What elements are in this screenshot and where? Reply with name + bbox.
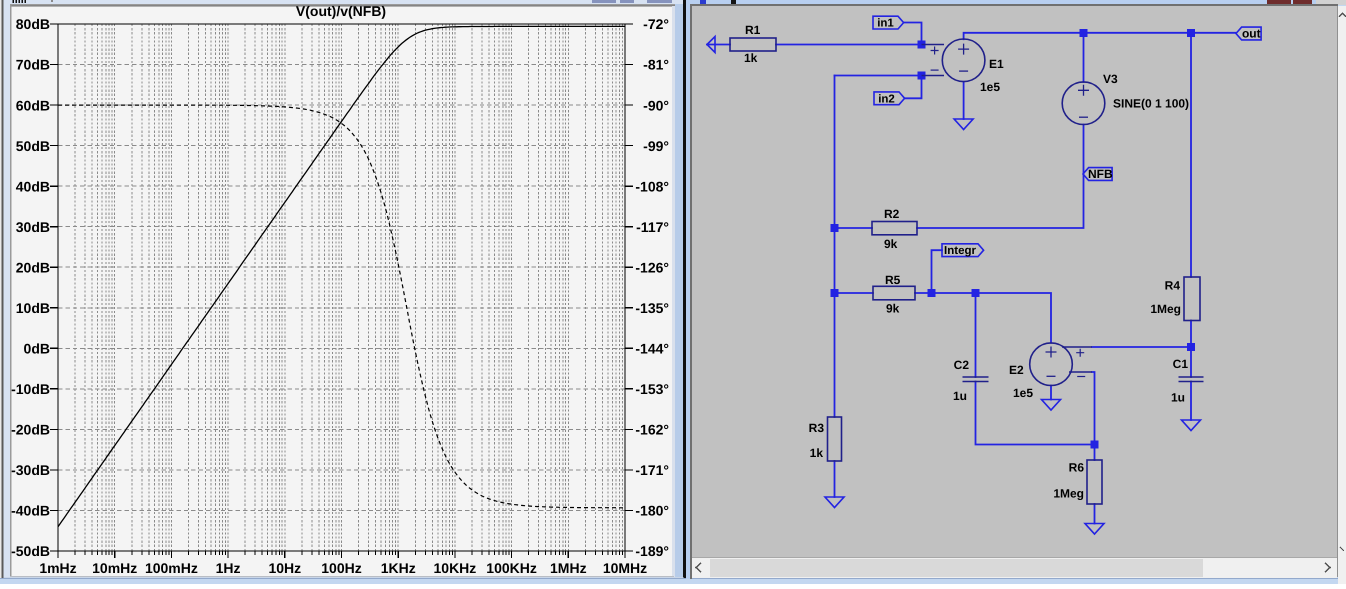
svg-text:20dB: 20dB: [16, 259, 50, 275]
svg-text:100KHz: 100KHz: [486, 560, 537, 576]
svg-text:V(out)/v(NFB): V(out)/v(NFB): [296, 3, 386, 19]
svg-text:SINE(0 1 100): SINE(0 1 100): [1113, 97, 1189, 111]
svg-text:1MHz: 1MHz: [550, 560, 587, 576]
svg-text:100Hz: 100Hz: [321, 560, 361, 576]
svg-text:1e5: 1e5: [980, 80, 1000, 94]
svg-text:1e5: 1e5: [1013, 386, 1033, 400]
svg-text:-10dB: -10dB: [11, 381, 50, 397]
svg-text:-126°: -126°: [635, 259, 669, 275]
svg-text:70dB: 70dB: [16, 57, 50, 73]
svg-text:1u: 1u: [953, 389, 967, 403]
svg-text:9k: 9k: [884, 237, 898, 251]
svg-text:out: out: [1242, 27, 1261, 41]
svg-text:R4: R4: [1165, 279, 1181, 293]
svg-text:-108°: -108°: [635, 178, 669, 194]
svg-text:10KHz: 10KHz: [434, 560, 477, 576]
svg-text:-90°: -90°: [643, 97, 669, 113]
svg-text:-40dB: -40dB: [11, 503, 50, 519]
svg-text:10dB: 10dB: [16, 300, 50, 316]
svg-text:-135°: -135°: [635, 300, 669, 316]
svg-text:1Meg: 1Meg: [1053, 487, 1084, 501]
svg-text:Integr: Integr: [944, 245, 976, 257]
svg-text:V3: V3: [1103, 72, 1118, 86]
svg-text:-99°: -99°: [643, 138, 669, 154]
svg-text:-117°: -117°: [636, 219, 669, 235]
svg-text:30dB: 30dB: [16, 219, 50, 235]
svg-text:R2: R2: [884, 207, 900, 221]
svg-text:in1: in1: [877, 18, 894, 30]
svg-text:R3: R3: [809, 421, 825, 435]
svg-text:10Hz: 10Hz: [268, 560, 301, 576]
svg-text:R5: R5: [885, 273, 901, 287]
svg-text:1KHz: 1KHz: [381, 560, 416, 576]
svg-text:-30dB: -30dB: [11, 462, 50, 478]
svg-text:E1: E1: [989, 57, 1004, 71]
svg-text:1Hz: 1Hz: [216, 560, 241, 576]
svg-text:C1: C1: [1173, 357, 1189, 371]
svg-text:-81°: -81°: [643, 57, 669, 73]
svg-text:-189°: -189°: [635, 543, 669, 559]
svg-text:NFB: NFB: [1088, 167, 1113, 181]
svg-text:100mHz: 100mHz: [145, 560, 198, 576]
svg-text:-72°: -72°: [643, 16, 669, 32]
svg-text:50dB: 50dB: [16, 138, 50, 154]
svg-text:E2: E2: [1009, 363, 1024, 377]
svg-text:1Meg: 1Meg: [1150, 302, 1181, 316]
svg-text:1k: 1k: [744, 51, 758, 65]
svg-text:1mHz: 1mHz: [39, 560, 76, 576]
svg-text:C2: C2: [954, 358, 970, 372]
svg-text:1k: 1k: [810, 446, 824, 460]
svg-text:10mHz: 10mHz: [92, 560, 137, 576]
svg-text:40dB: 40dB: [16, 178, 50, 194]
svg-text:-162°: -162°: [635, 422, 669, 438]
svg-text:80dB: 80dB: [16, 16, 50, 32]
svg-text:-153°: -153°: [635, 381, 669, 397]
svg-text:-50dB: -50dB: [11, 543, 50, 559]
svg-text:1u: 1u: [1171, 391, 1185, 405]
svg-text:-20dB: -20dB: [11, 422, 50, 438]
svg-text:in2: in2: [878, 93, 895, 105]
svg-text:10MHz: 10MHz: [603, 560, 647, 576]
svg-text:R1: R1: [745, 23, 761, 37]
svg-text:60dB: 60dB: [16, 97, 50, 113]
svg-text:0dB: 0dB: [24, 341, 50, 357]
svg-text:-144°: -144°: [635, 341, 669, 357]
svg-text:R6: R6: [1069, 461, 1085, 475]
svg-text:-180°: -180°: [635, 503, 669, 519]
svg-text:-171°: -171°: [635, 462, 669, 478]
svg-text:9k: 9k: [886, 302, 900, 316]
